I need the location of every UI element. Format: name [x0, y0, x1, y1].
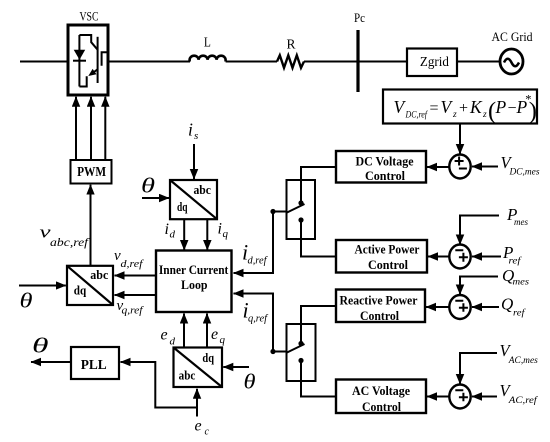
svg-text:Control: Control — [365, 168, 405, 183]
svg-text:AC,ref: AC,ref — [508, 395, 539, 406]
svg-text:d: d — [170, 336, 176, 348]
svg-text:L: L — [204, 36, 211, 51]
svg-text:Control: Control — [362, 399, 401, 414]
svg-text:θ: θ — [244, 370, 256, 394]
svg-text:AC,mes: AC,mes — [508, 356, 538, 366]
svg-text:AC Voltage: AC Voltage — [352, 383, 410, 398]
svg-text:abc,ref: abc,ref — [50, 237, 90, 249]
svg-text:Zgrid: Zgrid — [420, 54, 449, 69]
svg-text:abc: abc — [90, 268, 108, 282]
svg-text:R: R — [287, 38, 297, 53]
svg-text:Inner Current: Inner Current — [159, 262, 229, 277]
svg-text:K: K — [469, 97, 483, 117]
svg-text:q,ref: q,ref — [248, 314, 269, 325]
svg-text:dq: dq — [177, 200, 188, 214]
svg-text:ref: ref — [509, 256, 523, 267]
svg-text:i: i — [188, 120, 193, 140]
svg-text:AC Grid: AC Grid — [492, 29, 533, 44]
svg-text:s: s — [194, 130, 198, 142]
svg-text:e: e — [211, 326, 218, 343]
svg-text:q: q — [220, 334, 226, 346]
svg-text:e: e — [161, 327, 168, 344]
svg-text:): ) — [529, 98, 537, 125]
svg-text:PLL: PLL — [81, 358, 107, 373]
svg-text:Active Power: Active Power — [355, 242, 420, 257]
svg-text:mes: mes — [514, 218, 528, 228]
svg-text:ref: ref — [513, 308, 526, 319]
svg-text:Control: Control — [360, 308, 399, 323]
svg-text:d,ref: d,ref — [248, 256, 269, 267]
svg-text:Pc: Pc — [354, 10, 365, 25]
svg-text:dq: dq — [202, 351, 214, 365]
svg-text:dq: dq — [74, 284, 86, 298]
svg-text:+: + — [459, 100, 468, 117]
svg-text:DC,ref: DC,ref — [405, 110, 428, 121]
svg-text:z: z — [482, 110, 487, 120]
svg-text:d: d — [170, 229, 176, 241]
svg-text:θ: θ — [141, 174, 155, 198]
svg-text:c: c — [205, 427, 210, 438]
svg-text:q: q — [223, 228, 229, 240]
svg-text:DC,mes: DC,mes — [509, 168, 540, 178]
svg-text:Reactive Power: Reactive Power — [340, 293, 418, 308]
svg-text:Q: Q — [501, 295, 513, 314]
svg-text:mes: mes — [513, 278, 530, 288]
svg-text:θ: θ — [20, 289, 33, 313]
svg-text:PWM: PWM — [77, 165, 106, 180]
svg-text:q,ref: q,ref — [122, 306, 145, 317]
svg-text:abc: abc — [193, 183, 211, 197]
svg-text:d,ref: d,ref — [121, 259, 145, 270]
svg-text:i: i — [218, 221, 222, 238]
svg-text:Loop: Loop — [181, 277, 208, 292]
svg-text:DC Voltage: DC Voltage — [356, 154, 414, 169]
svg-text:VSC: VSC — [80, 9, 99, 24]
svg-text:Control: Control — [368, 257, 408, 272]
svg-text:z: z — [452, 110, 457, 120]
svg-text:P: P — [495, 97, 507, 117]
svg-text:i: i — [165, 221, 169, 238]
svg-text:θ: θ — [32, 334, 49, 358]
svg-text:abc: abc — [179, 369, 196, 383]
svg-text:e: e — [195, 418, 202, 435]
svg-text:−: − — [508, 100, 517, 117]
svg-text:=: = — [430, 100, 439, 117]
svg-text:V: V — [441, 97, 454, 117]
